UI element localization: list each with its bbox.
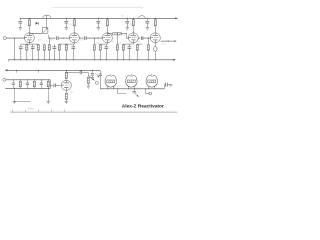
resistor R34 series	[113, 33, 122, 35]
resistor R2g grid leak	[48, 38, 50, 45]
output arrow 2	[88, 75, 94, 80]
capacitor C8 heater end	[164, 84, 165, 86]
wire V2 plate right	[79, 37, 83, 39]
ground under C3f	[97, 28, 100, 30]
pot VR1 volume	[42, 28, 48, 34]
resistor R4g grid leak	[116, 34, 118, 45]
capacitor C3k bypass	[105, 44, 107, 47]
resistor R7 load	[87, 77, 89, 83]
rail hop at pot feed	[43, 15, 51, 18]
wire V1 cathode	[28, 43, 30, 44]
capacitor C4 coupling	[141, 36, 143, 40]
wire R34 to V4 grid	[121, 33, 126, 35]
resistor R2x	[58, 43, 60, 46]
capacitor C1k bypass	[32, 44, 34, 47]
wire C2 to V3 grid	[86, 37, 102, 39]
input terminal J1	[3, 37, 6, 40]
output arrow	[168, 40, 176, 42]
ladder return right	[47, 88, 49, 101]
tube socket S3 heater	[146, 74, 158, 89]
wire C6 down	[82, 71, 89, 73]
wire C4 to V5 grid	[143, 37, 151, 39]
scale ticks	[11, 110, 13, 112]
diode-mark near V1 plate	[36, 22, 38, 25]
ground under C5f	[146, 28, 149, 30]
capacitor C1z	[53, 44, 55, 47]
wire V1 plate to pot	[29, 32, 42, 34]
resistor R5x	[136, 43, 138, 46]
arrow below S2	[135, 94, 139, 97]
capacitor C7a heater	[91, 70, 93, 73]
wire heater line A	[7, 69, 101, 71]
wire V3 cathode	[106, 43, 108, 44]
ladder lower return	[13, 88, 15, 101]
wire B+ rail	[20, 17, 176, 19]
resistor R1a plate load	[28, 18, 30, 20]
faint fold line	[52, 6, 143, 8]
bus end arrow	[173, 59, 175, 61]
wire heater drop	[99, 70, 101, 73]
ground under C4f	[126, 28, 129, 30]
resistor R1L ladder	[19, 80, 21, 82]
resistor R1x	[37, 43, 39, 46]
svg-text:1M: 1M	[50, 39, 53, 41]
tube V1 triode	[24, 33, 34, 43]
wire ladder top	[6, 79, 51, 81]
ground ladder left	[13, 102, 16, 104]
rail jumper hop	[139, 16, 146, 19]
tube socket S2 heater	[126, 74, 138, 89]
wire ladder bottom	[5, 87, 50, 89]
wire below S1	[116, 89, 118, 94]
resistor R5a plate load	[154, 18, 156, 20]
capacitor C4k bypass	[128, 44, 130, 47]
wire V4 plate right	[138, 37, 140, 39]
output terminal J3	[95, 81, 98, 84]
resistor R1k cathode	[26, 43, 28, 46]
wire input to V1 grid	[6, 37, 24, 39]
capacitor C1L ladder	[12, 80, 14, 83]
tube socket S1 heater	[105, 74, 117, 89]
resistor R2k cathode	[65, 43, 67, 46]
tube V4 triode	[128, 33, 138, 43]
resistor R4k cathode	[122, 43, 124, 46]
capacitor C3f filter	[97, 18, 99, 20]
svg-text:5 cm: 5 cm	[28, 108, 33, 111]
ground under C7a	[91, 78, 94, 80]
wire V3 plate right	[107, 33, 113, 35]
pilot lamp	[144, 89, 146, 94]
wire V6 plate to C6	[66, 72, 67, 73]
capacitor C2f filter	[65, 18, 67, 20]
arrow heater	[95, 73, 99, 77]
capacitor C4f filter	[126, 18, 128, 20]
resistor R6k cathode	[65, 91, 67, 94]
capacitor C7 heater	[99, 74, 102, 76]
capacitor C9 below	[133, 92, 137, 93]
capacitor C2L ladder	[26, 80, 28, 83]
resistor R4a plate load	[132, 18, 134, 20]
capacitor C6 coupling	[80, 70, 82, 74]
tube V3 triode	[102, 33, 112, 43]
wire V4 cathode	[132, 43, 134, 44]
capacitor C5 coupling to V6	[50, 84, 53, 86]
wire ladder right join	[49, 80, 51, 89]
bus left end	[7, 60, 9, 62]
wire pot wiper down	[48, 35, 50, 38]
wire ground bus	[8, 59, 174, 61]
svg-text:1M: 1M	[111, 41, 114, 43]
capacitor C1 coupling	[57, 36, 59, 40]
resistor R3a plate load	[106, 18, 108, 20]
resistor R5g grid leak	[147, 38, 149, 45]
capacitor C5f filter	[146, 18, 148, 20]
tube V6 triode	[61, 80, 71, 90]
resistor R6a plate load	[65, 70, 67, 72]
resistor R3L ladder	[47, 80, 49, 82]
wire C1 to V2 grid	[58, 37, 70, 39]
ground under C1f	[19, 28, 22, 30]
resistor R2a plate load	[73, 18, 75, 20]
stub on line A	[15, 70, 17, 73]
resistor R3k cathode	[99, 43, 101, 46]
wire heater bus	[100, 88, 164, 90]
capacitor C2k bypass	[72, 44, 74, 47]
resistor R3g grid leak	[93, 38, 95, 45]
rail end arrow	[175, 17, 177, 19]
scale bar line	[10, 111, 177, 113]
input terminal J2	[3, 78, 6, 81]
tube V5 cathode electrolytic	[154, 43, 156, 47]
svg-text:Alex-Z Reactivator: Alex-Z Reactivator	[122, 103, 164, 109]
ground under R6k	[65, 101, 68, 103]
ground under C2f	[65, 28, 68, 30]
resistor R2L ladder	[33, 80, 35, 82]
ground ladder right	[47, 102, 50, 104]
wire pot feed from rail	[45, 15, 47, 27]
capacitor C1f filter	[19, 18, 21, 20]
ground heater end	[169, 85, 172, 87]
capacitor C2 coupling	[85, 36, 87, 40]
wire pot to C1	[49, 37, 56, 39]
wire V5 output	[161, 40, 169, 42]
wire input ground drop	[13, 38, 15, 60]
wire V2 cathode	[73, 43, 75, 44]
wire below S2	[133, 89, 135, 91]
capacitor C3L ladder	[40, 80, 42, 83]
ground under R7	[87, 86, 90, 88]
capacitor C1x	[20, 44, 22, 47]
wire heater end up	[163, 85, 165, 89]
wire below S1 horizontal	[117, 92, 126, 94]
tube V2 triode	[69, 33, 79, 43]
tube V5 triode	[150, 33, 160, 43]
resistor R1y	[43, 43, 45, 46]
